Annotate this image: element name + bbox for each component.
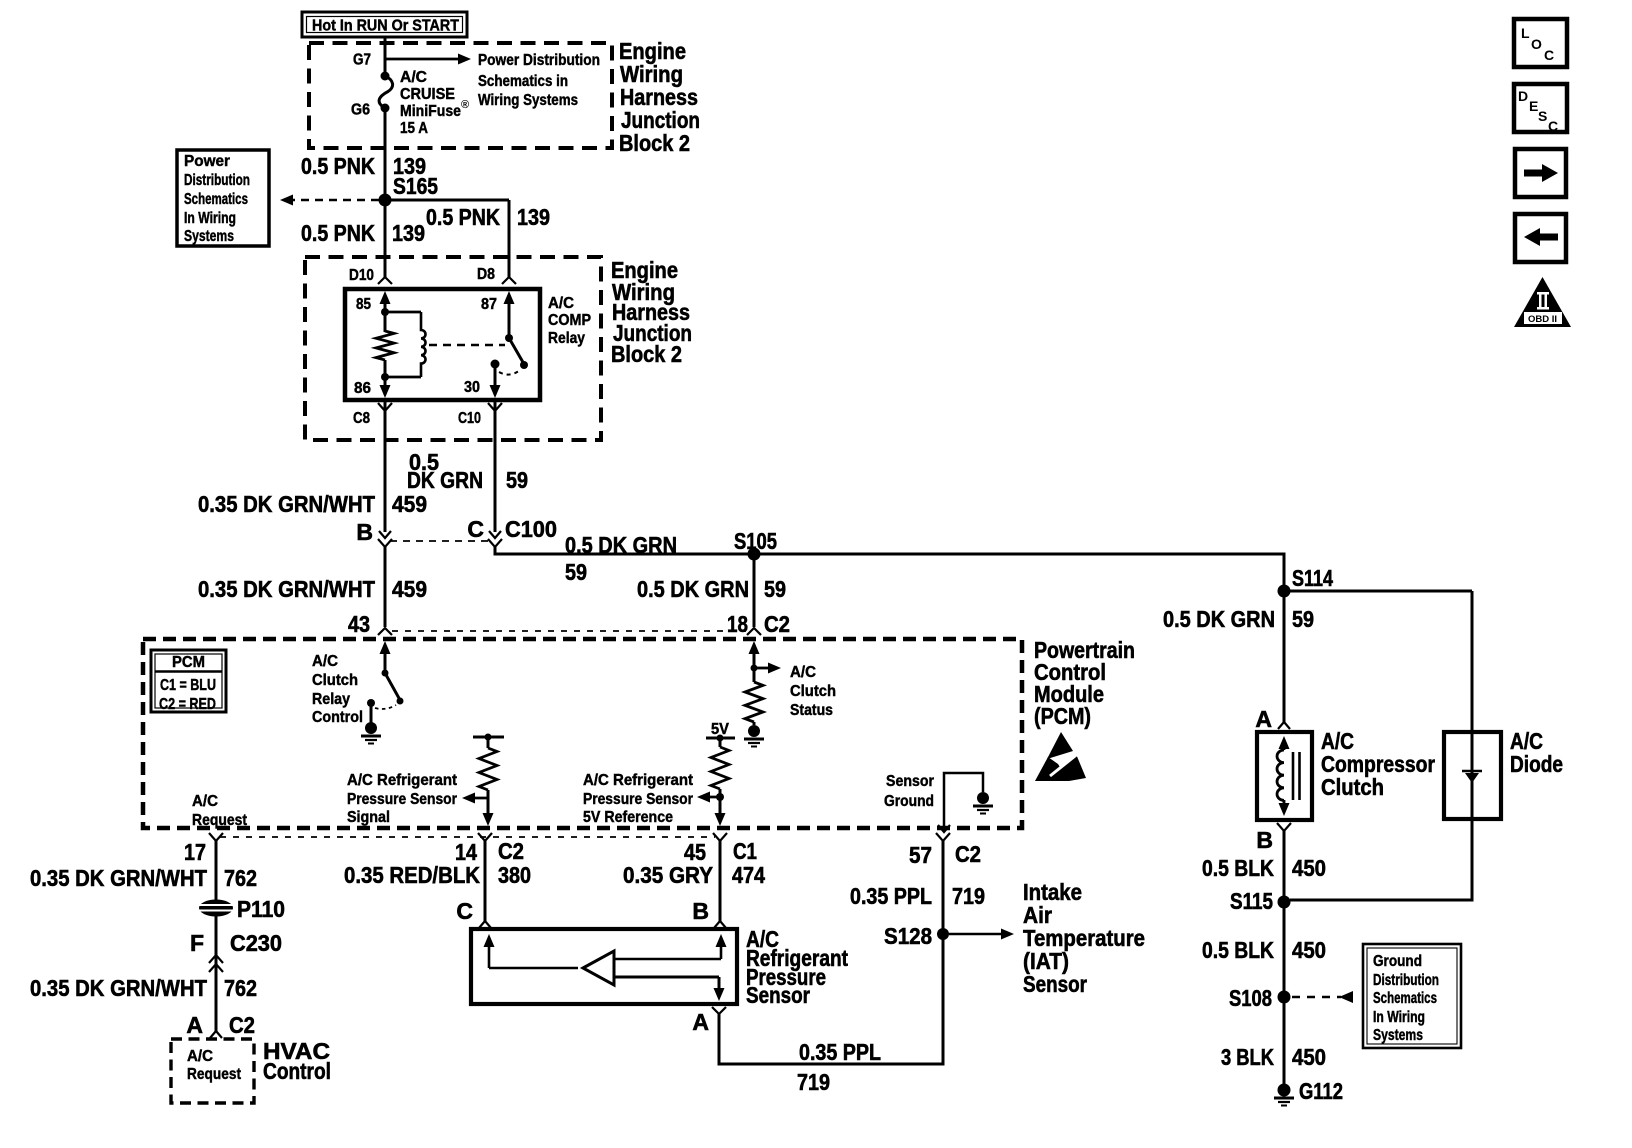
svg-text:A/C Refrigerant: A/C Refrigerant <box>583 772 693 789</box>
svg-text:B: B <box>692 898 709 924</box>
svg-text:D: D <box>1518 88 1528 104</box>
svg-text:S114: S114 <box>1292 565 1333 591</box>
svg-text:59: 59 <box>565 559 587 585</box>
svg-text:380: 380 <box>498 862 531 888</box>
svg-text:Request: Request <box>187 1066 241 1083</box>
svg-text:S128: S128 <box>884 923 932 949</box>
svg-text:Hot In RUN Or START: Hot In RUN Or START <box>312 18 459 35</box>
svg-text:C10: C10 <box>458 410 481 427</box>
svg-text:Pressure Sensor: Pressure Sensor <box>583 791 693 808</box>
svg-text:0.5 DK GRN: 0.5 DK GRN <box>637 576 749 602</box>
svg-text:0.5 DK GRN: 0.5 DK GRN <box>1163 606 1275 632</box>
svg-text:Clutch: Clutch <box>790 683 836 700</box>
svg-text:PCM: PCM <box>172 654 205 671</box>
svg-text:A/C: A/C <box>790 664 816 681</box>
svg-text:0.5 PNK: 0.5 PNK <box>301 220 375 246</box>
svg-text:Sensor: Sensor <box>886 773 934 790</box>
svg-text:C2 = RED: C2 = RED <box>159 696 216 713</box>
svg-text:G112: G112 <box>1299 1078 1343 1104</box>
svg-text:0.35 PPL: 0.35 PPL <box>850 883 932 909</box>
svg-text:G7: G7 <box>353 52 371 69</box>
svg-text:459: 459 <box>392 576 427 602</box>
svg-text:Signal: Signal <box>347 809 390 826</box>
svg-text:87: 87 <box>481 296 497 313</box>
svg-text:0.35 DK GRN/WHT: 0.35 DK GRN/WHT <box>30 865 207 891</box>
svg-text:18: 18 <box>727 611 748 637</box>
svg-text:C: C <box>1548 118 1558 134</box>
svg-text:S108: S108 <box>1229 985 1272 1011</box>
svg-text:86: 86 <box>354 380 371 397</box>
svg-text:Distribution: Distribution <box>1373 972 1439 989</box>
svg-text:0.35 PPL: 0.35 PPL <box>799 1039 881 1065</box>
svg-text:0.35 DK GRN/WHT: 0.35 DK GRN/WHT <box>30 975 207 1001</box>
svg-text:139: 139 <box>517 204 550 230</box>
svg-text:17: 17 <box>184 839 206 865</box>
svg-text:Clutch: Clutch <box>1321 774 1384 800</box>
svg-text:Relay: Relay <box>312 691 350 708</box>
svg-text:(PCM): (PCM) <box>1034 703 1091 729</box>
svg-text:719: 719 <box>952 883 985 909</box>
svg-text:C: C <box>456 898 473 924</box>
svg-text:Schematics in: Schematics in <box>478 73 568 90</box>
svg-text:762: 762 <box>224 975 257 1001</box>
svg-text:In Wiring: In Wiring <box>184 210 236 227</box>
svg-text:Diode: Diode <box>1510 751 1563 777</box>
svg-text:C2: C2 <box>498 838 524 864</box>
svg-text:474: 474 <box>732 862 765 888</box>
svg-text:Block 2: Block 2 <box>611 341 682 367</box>
svg-text:Power Distribution: Power Distribution <box>478 52 600 69</box>
svg-text:MiniFuse: MiniFuse <box>400 103 461 120</box>
svg-text:450: 450 <box>1292 937 1326 963</box>
svg-text:43: 43 <box>348 611 370 637</box>
svg-text:In Wiring: In Wiring <box>1373 1009 1425 1026</box>
svg-text:5V Reference: 5V Reference <box>583 809 673 826</box>
svg-text:S115: S115 <box>1230 888 1273 914</box>
svg-text:450: 450 <box>1292 855 1326 881</box>
svg-text:A/C: A/C <box>192 793 218 810</box>
svg-text:C1 = BLU: C1 = BLU <box>160 677 216 694</box>
svg-text:762: 762 <box>224 865 257 891</box>
svg-text:C1: C1 <box>733 838 757 864</box>
svg-text:85: 85 <box>356 296 371 313</box>
svg-text:A/C: A/C <box>187 1048 213 1065</box>
svg-text:C2: C2 <box>955 841 981 867</box>
svg-text:Schematics: Schematics <box>184 191 248 208</box>
svg-text:®: ® <box>461 99 469 111</box>
svg-text:P110: P110 <box>237 896 285 922</box>
svg-text:A/C: A/C <box>548 295 574 312</box>
svg-text:A: A <box>1255 706 1272 732</box>
svg-text:15 A: 15 A <box>400 120 428 137</box>
svg-text:A/C: A/C <box>400 69 427 86</box>
svg-text:59: 59 <box>764 576 786 602</box>
svg-text:CRUISE: CRUISE <box>400 86 455 103</box>
svg-text:L: L <box>1521 25 1530 41</box>
svg-text:COMP: COMP <box>548 312 591 329</box>
svg-text:Status: Status <box>790 702 833 719</box>
svg-text:459: 459 <box>392 491 427 517</box>
svg-text:C2: C2 <box>229 1012 255 1038</box>
svg-text:Control: Control <box>263 1058 331 1084</box>
svg-text:Request: Request <box>192 812 247 829</box>
svg-text:3 BLK: 3 BLK <box>1221 1044 1274 1070</box>
svg-text:C8: C8 <box>353 410 370 427</box>
svg-text:139: 139 <box>392 220 425 246</box>
svg-text:O: O <box>1531 36 1542 52</box>
svg-text:Block 2: Block 2 <box>619 130 690 156</box>
svg-text:A/C Refrigerant: A/C Refrigerant <box>347 772 457 789</box>
svg-text:A: A <box>186 1012 203 1038</box>
svg-text:Relay: Relay <box>548 330 585 347</box>
svg-text:D8: D8 <box>477 266 495 283</box>
svg-text:450: 450 <box>1292 1044 1326 1070</box>
svg-text:57: 57 <box>909 842 932 868</box>
svg-text:Systems: Systems <box>1373 1027 1423 1044</box>
svg-text:0.35 DK GRN/WHT: 0.35 DK GRN/WHT <box>198 491 375 517</box>
svg-text:A/C: A/C <box>312 653 338 670</box>
svg-text:DK GRN: DK GRN <box>407 467 483 493</box>
svg-text:E: E <box>1529 98 1538 114</box>
svg-text:Power: Power <box>184 153 230 170</box>
svg-text:Systems: Systems <box>184 228 234 245</box>
svg-text:0.5 BLK: 0.5 BLK <box>1202 855 1274 881</box>
svg-text:0.5 PNK: 0.5 PNK <box>426 204 500 230</box>
svg-text:D10: D10 <box>349 267 374 284</box>
svg-text:C2: C2 <box>764 611 790 637</box>
svg-text:719: 719 <box>797 1069 830 1095</box>
svg-text:G6: G6 <box>351 102 370 119</box>
svg-text:0.35 GRY: 0.35 GRY <box>623 862 713 888</box>
svg-text:Ground: Ground <box>1373 953 1422 970</box>
svg-text:Sensor: Sensor <box>1023 971 1087 997</box>
svg-text:Sensor: Sensor <box>746 982 810 1008</box>
svg-text:Wiring Systems: Wiring Systems <box>478 92 578 109</box>
svg-text:C230: C230 <box>230 930 282 956</box>
svg-text:S105: S105 <box>734 528 777 554</box>
svg-text:B: B <box>356 519 373 545</box>
svg-text:30: 30 <box>464 379 480 396</box>
svg-text:OBD II: OBD II <box>1528 314 1557 325</box>
svg-text:Clutch: Clutch <box>312 672 358 689</box>
svg-text:Control: Control <box>312 709 363 726</box>
svg-text:0.5 BLK: 0.5 BLK <box>1202 937 1274 963</box>
svg-text:Ground: Ground <box>884 793 934 810</box>
svg-text:0.5 DK GRN: 0.5 DK GRN <box>565 532 677 558</box>
svg-text:A: A <box>692 1009 709 1035</box>
svg-text:59: 59 <box>506 467 528 493</box>
svg-text:C: C <box>467 516 484 542</box>
svg-text:F: F <box>190 930 204 956</box>
svg-text:Schematics: Schematics <box>1373 990 1437 1007</box>
svg-text:Pressure Sensor: Pressure Sensor <box>347 791 457 808</box>
svg-text:C100: C100 <box>505 516 557 542</box>
svg-text:0.35 RED/BLK: 0.35 RED/BLK <box>344 862 480 888</box>
svg-text:59: 59 <box>1292 606 1314 632</box>
svg-text:S: S <box>1538 108 1547 124</box>
svg-text:0.35 DK GRN/WHT: 0.35 DK GRN/WHT <box>198 576 375 602</box>
svg-text:S165: S165 <box>393 173 438 199</box>
svg-text:B: B <box>1256 827 1273 853</box>
svg-text:Distribution: Distribution <box>184 172 250 189</box>
svg-text:C: C <box>1544 47 1554 63</box>
svg-text:0.5 PNK: 0.5 PNK <box>301 153 375 179</box>
